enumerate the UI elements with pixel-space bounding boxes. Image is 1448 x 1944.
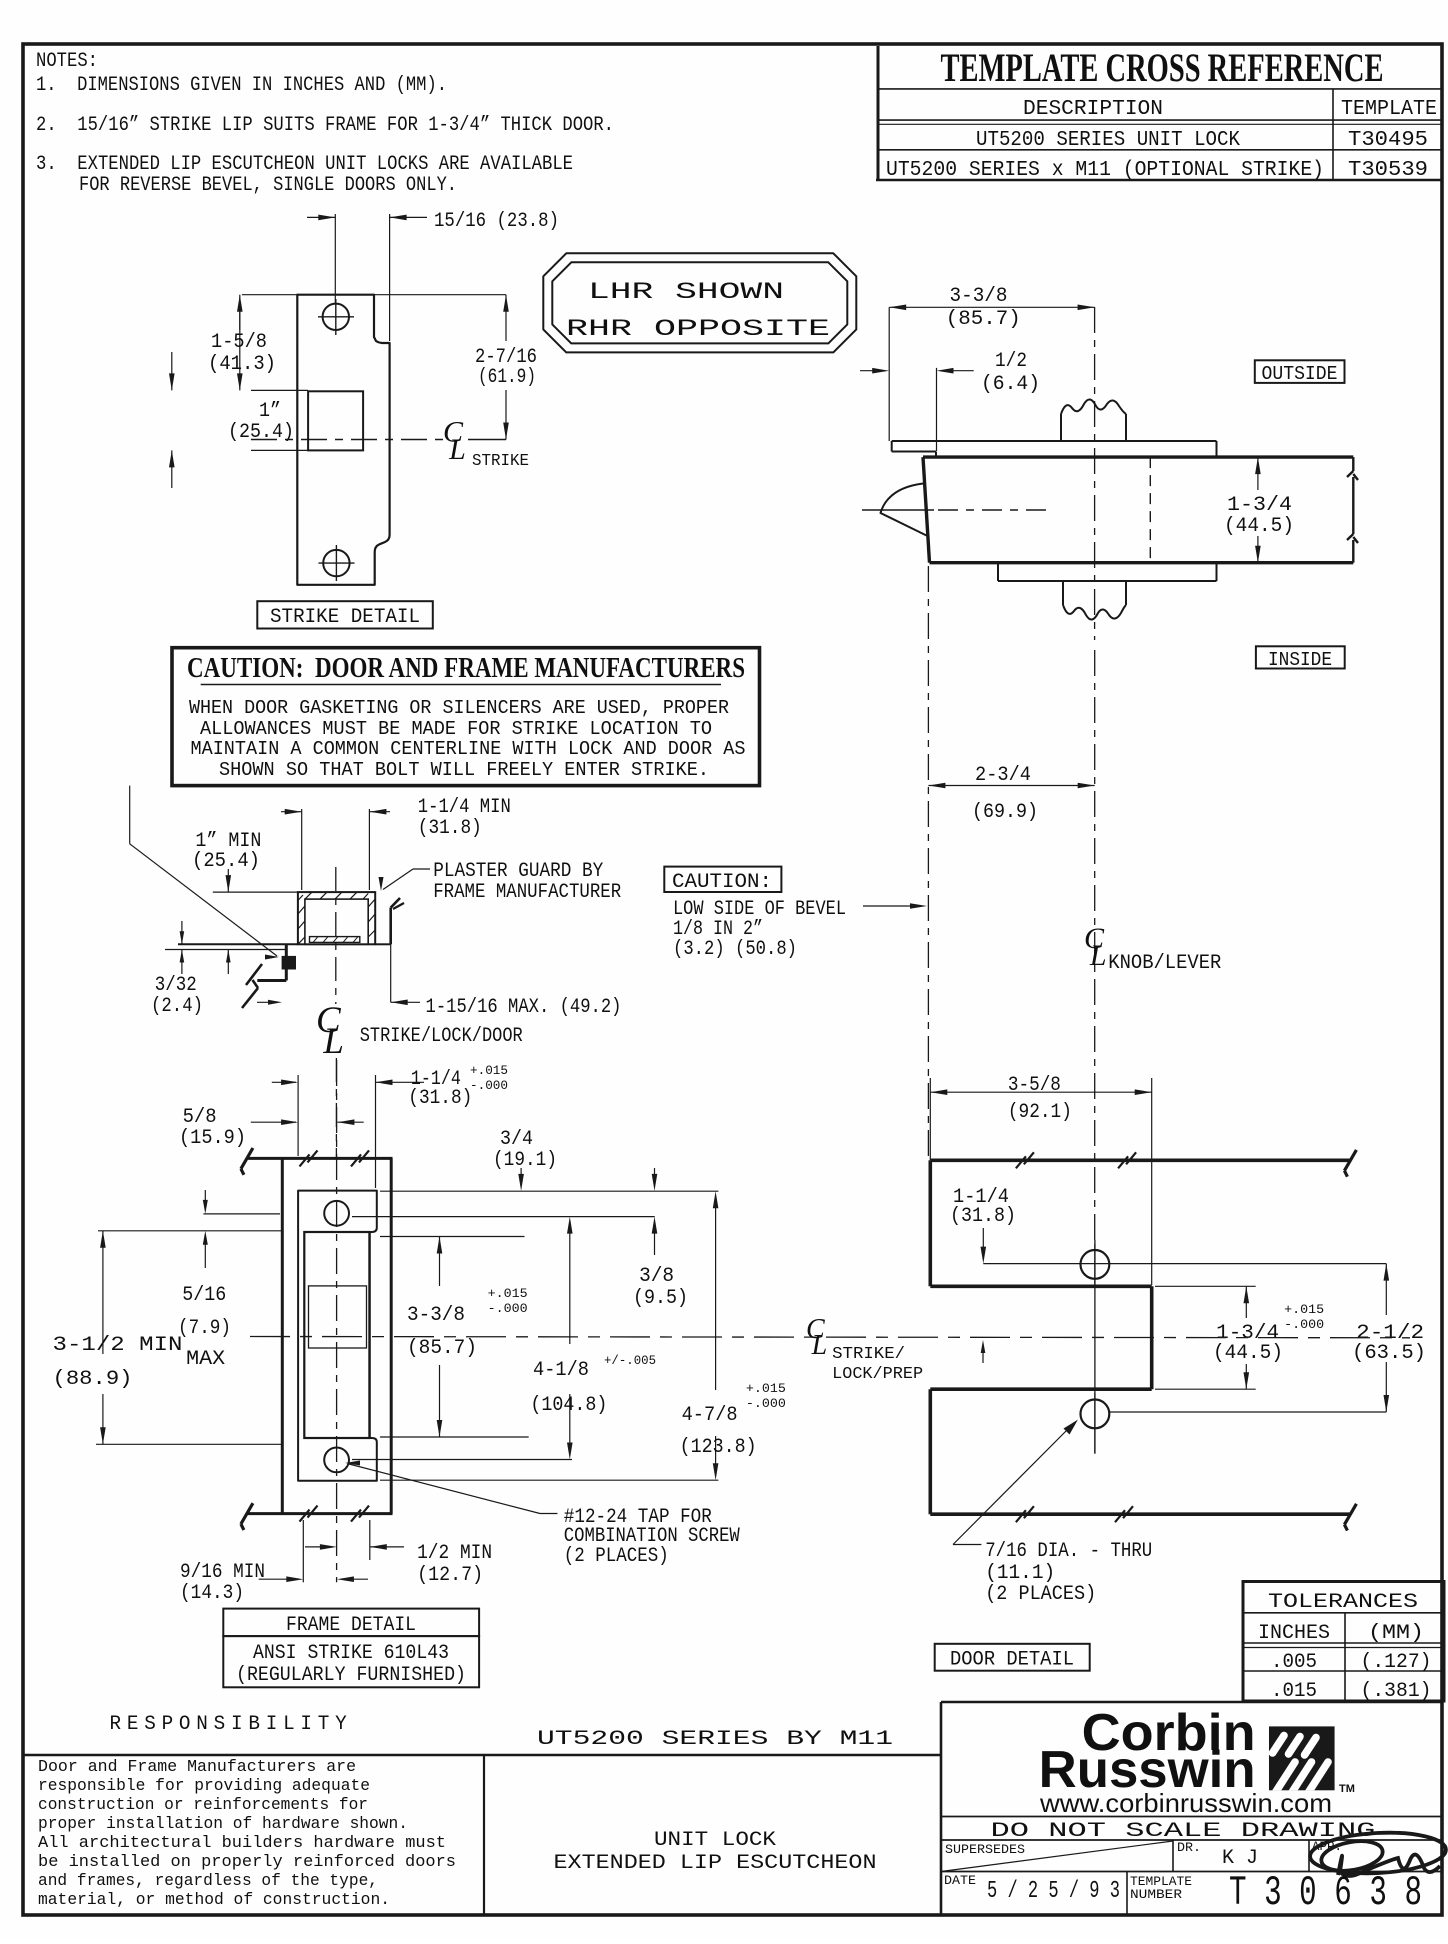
frame detail vertical centerline bbox=[336, 1060, 338, 1582]
drawn by cell bbox=[1177, 1840, 1258, 1870]
svg-text:All architectural builders har: All architectural builders hardware must bbox=[38, 1834, 446, 1853]
svg-text:CAUTION: DOOR AND FRAME MANUF: CAUTION: DOOR AND FRAME MANUFACTURERS bbox=[187, 653, 745, 684]
centerline symbol strike bbox=[443, 416, 529, 472]
dim 1/2 MIN (12.7) bbox=[305, 1520, 492, 1587]
svg-text:L: L bbox=[448, 433, 466, 466]
door edge break marks right bbox=[1347, 457, 1358, 563]
svg-text:L: L bbox=[1089, 939, 1107, 972]
dim 1-5/8 (41.3) bbox=[208, 295, 297, 391]
centerline symbol knob/lever bbox=[1084, 922, 1221, 975]
svg-text:MAX: MAX bbox=[186, 1348, 225, 1371]
door panel outline bbox=[923, 457, 1353, 563]
svg-text:3-5/8: 3-5/8 bbox=[1008, 1074, 1061, 1097]
latch pocket rect bbox=[304, 1232, 369, 1438]
svg-text:(92.1): (92.1) bbox=[1008, 1101, 1072, 1124]
svg-text:DATE: DATE bbox=[944, 1873, 976, 1888]
svg-text:STRIKE: STRIKE bbox=[472, 452, 529, 471]
svg-text:(31.8): (31.8) bbox=[950, 1205, 1016, 1228]
svg-text:(31.8): (31.8) bbox=[408, 1087, 472, 1110]
svg-text:(69.9): (69.9) bbox=[972, 801, 1038, 824]
do not scale drawing bbox=[991, 1820, 1376, 1843]
svg-text:1-15/16 MAX. (49.2): 1-15/16 MAX. (49.2) bbox=[426, 996, 622, 1019]
svg-text:(63.5): (63.5) bbox=[1352, 1342, 1426, 1365]
svg-text:(15.9): (15.9) bbox=[179, 1127, 246, 1150]
outside label box bbox=[1255, 360, 1345, 385]
svg-text:MAINTAIN A COMMON CENTERLINE W: MAINTAIN A COMMON CENTERLINE WITH LOCK A… bbox=[191, 738, 746, 760]
svg-text:TM: TM bbox=[1339, 1783, 1355, 1795]
svg-text:proper installation of hardwar: proper installation of hardware shown. bbox=[38, 1815, 408, 1834]
svg-text:NUMBER: NUMBER bbox=[1130, 1887, 1182, 1902]
svg-text:(7.9): (7.9) bbox=[178, 1317, 231, 1340]
strike lip bent over frame bbox=[391, 898, 404, 944]
svg-text:1/2 MIN: 1/2 MIN bbox=[417, 1542, 492, 1565]
svg-text:(19.1): (19.1) bbox=[493, 1149, 557, 1172]
leader from caution box to silencer bbox=[130, 786, 279, 960]
svg-text:15/16 (23.8): 15/16 (23.8) bbox=[434, 210, 559, 233]
svg-text:DR.: DR. bbox=[1177, 1840, 1201, 1855]
svg-text:3/4: 3/4 bbox=[500, 1128, 533, 1151]
svg-text:SUPERSEDES: SUPERSEDES bbox=[945, 1842, 1025, 1857]
svg-text:Door and Frame Manufacturers a: Door and Frame Manufacturers are bbox=[38, 1758, 356, 1777]
svg-text:5 / 2 5 / 9 3: 5 / 2 5 / 9 3 bbox=[987, 1878, 1120, 1905]
dim 5/8 (15.9) bbox=[179, 1106, 364, 1150]
dim 1-1/4 MIN (31.8) bbox=[281, 796, 511, 890]
svg-text:(9.5): (9.5) bbox=[633, 1287, 688, 1310]
svg-text:EXTENDED LIP ESCUTCHEON: EXTENDED LIP ESCUTCHEON bbox=[554, 1852, 877, 1875]
latch bolt bbox=[881, 484, 927, 536]
svg-text:(88.9): (88.9) bbox=[53, 1368, 133, 1391]
arrow into strike/lock cl from left bbox=[0, 0, 1, 1]
door detail label box bbox=[935, 1644, 1090, 1672]
plaster guard leader text bbox=[379, 860, 622, 904]
svg-text:1-5/8: 1-5/8 bbox=[211, 331, 267, 354]
svg-text:(11.1): (11.1) bbox=[985, 1562, 1055, 1585]
date cell bbox=[944, 1873, 1120, 1905]
svg-text:(2.4): (2.4) bbox=[151, 995, 203, 1018]
strike screw hole bottom bbox=[319, 545, 355, 581]
svg-text:(41.3): (41.3) bbox=[208, 353, 276, 376]
strike centerline bbox=[251, 439, 506, 441]
svg-text:responsible for providing adeq: responsible for providing adequate bbox=[38, 1777, 370, 1796]
svg-text:UT5200 SERIES BY M11: UT5200 SERIES BY M11 bbox=[537, 1728, 893, 1751]
svg-text:STRIKE DETAIL: STRIKE DETAIL bbox=[270, 606, 420, 629]
leader 7/16 dia thru bbox=[953, 1420, 1152, 1606]
thin gap lines 3/32 bbox=[165, 949, 286, 951]
svg-text:(85.7): (85.7) bbox=[407, 1337, 477, 1360]
svg-text:5/8: 5/8 bbox=[183, 1106, 217, 1129]
svg-text:(14.3): (14.3) bbox=[180, 1582, 244, 1605]
svg-text:-.000: -.000 bbox=[470, 1078, 508, 1093]
supersedes cell bbox=[941, 1841, 1173, 1872]
svg-text:.015: .015 bbox=[1271, 1680, 1317, 1703]
svg-text:.005: .005 bbox=[1271, 1651, 1317, 1674]
svg-text:RHR OPPOSITE: RHR OPPOSITE bbox=[566, 316, 830, 342]
svg-text:(2 PLACES): (2 PLACES) bbox=[985, 1583, 1096, 1606]
svg-text:ALLOWANCES MUST BE MADE FOR ST: ALLOWANCES MUST BE MADE FOR STRIKE LOCAT… bbox=[200, 718, 712, 740]
svg-text:3-3/8: 3-3/8 bbox=[407, 1304, 465, 1327]
svg-text:3-3/8: 3-3/8 bbox=[950, 285, 1008, 308]
frame screw hole top bbox=[324, 1201, 349, 1226]
svg-text:SHOWN SO THAT BOLT WILL FREELY: SHOWN SO THAT BOLT WILL FREELY ENTER STR… bbox=[219, 759, 709, 781]
svg-text:(44.5): (44.5) bbox=[1213, 1342, 1283, 1365]
svg-text:-.000: -.000 bbox=[488, 1301, 528, 1316]
svg-text:STRIKE/LOCK/DOOR: STRIKE/LOCK/DOOR bbox=[360, 1025, 523, 1048]
svg-text:LOCK/PREP: LOCK/PREP bbox=[832, 1365, 923, 1384]
extension lines frame top right bbox=[203, 1191, 718, 1216]
strike screw hole top bbox=[318, 299, 354, 335]
svg-text:1-3/4: 1-3/4 bbox=[1227, 494, 1292, 517]
dim 3/4 (19.1) bbox=[493, 1128, 657, 1191]
svg-text:7/16 DIA. - THRU: 7/16 DIA. - THRU bbox=[985, 1540, 1152, 1563]
dim 3-3/8 (85.7) frame bbox=[380, 1237, 529, 1438]
svg-text:PLASTER GUARD BY: PLASTER GUARD BY bbox=[433, 860, 603, 883]
title block dividers bbox=[23, 1702, 1443, 1915]
door detail screw hole bottom bbox=[1081, 1393, 1110, 1454]
svg-text:(85.7): (85.7) bbox=[946, 308, 1021, 331]
svg-text:CAUTION:: CAUTION: bbox=[672, 871, 772, 894]
svg-text:3. EXTENDED LIP ESCUTCHEON UN: 3. EXTENDED LIP ESCUTCHEON UNIT LOCKS AR… bbox=[36, 153, 573, 176]
strike/lock/door centerline dashed below door bbox=[927, 566, 929, 1158]
svg-text:DESCRIPTION: DESCRIPTION bbox=[1023, 98, 1163, 121]
centerline symbol strike/lock/prep bbox=[806, 1314, 923, 1384]
outside escutcheon plate bbox=[892, 441, 1217, 457]
svg-text:INSIDE: INSIDE bbox=[1268, 649, 1332, 671]
svg-text:(2 PLACES): (2 PLACES) bbox=[564, 1545, 669, 1568]
svg-text:2-3/4: 2-3/4 bbox=[975, 764, 1031, 787]
ut5200 series title bbox=[537, 1728, 893, 1875]
svg-text:LHR SHOWN: LHR SHOWN bbox=[588, 279, 784, 305]
approved cell signature bbox=[1309, 1829, 1447, 1876]
svg-text:FRAME DETAIL: FRAME DETAIL bbox=[286, 1614, 416, 1637]
svg-text:(104.8): (104.8) bbox=[530, 1394, 607, 1417]
dim 3/8 (9.5) bbox=[633, 1217, 688, 1310]
svg-text:UT5200 SERIES UNIT LOCK: UT5200 SERIES UNIT LOCK bbox=[976, 129, 1240, 152]
svg-text:TEMPLATE CROSS REFERENCE: TEMPLATE CROSS REFERENCE bbox=[941, 45, 1384, 90]
svg-text:9/16 MIN: 9/16 MIN bbox=[180, 1561, 265, 1584]
strike plate cross-section inside guard bbox=[310, 937, 360, 943]
svg-text:(44.5): (44.5) bbox=[1224, 515, 1294, 538]
svg-text:3/8: 3/8 bbox=[639, 1265, 674, 1288]
svg-text:FRAME MANUFACTURER: FRAME MANUFACTURER bbox=[433, 881, 621, 904]
notes text block bbox=[36, 50, 614, 197]
svg-text:(.381): (.381) bbox=[1361, 1680, 1432, 1703]
dim 1-3/4 (44.5) door thickness bbox=[1224, 457, 1294, 563]
dim 3/32 (2.4) arrows bbox=[151, 921, 231, 1018]
svg-text:ANSI STRIKE 610L43: ANSI STRIKE 610L43 bbox=[253, 1642, 449, 1665]
caution door and frame manufacturers box bbox=[172, 648, 760, 786]
dim 9/16 MIN (14.3) bbox=[180, 1520, 368, 1605]
svg-text:+.015: +.015 bbox=[1284, 1302, 1324, 1317]
svg-text:(6.4): (6.4) bbox=[981, 373, 1040, 396]
latch square thin bbox=[309, 1286, 367, 1348]
svg-text:1-1/4 MIN: 1-1/4 MIN bbox=[418, 796, 511, 819]
responsibility block bbox=[38, 1713, 456, 1910]
svg-text:(REGULARLY FURNISHED): (REGULARLY FURNISHED) bbox=[236, 1664, 466, 1687]
knob stem above with break bbox=[1061, 399, 1126, 441]
frame screw hole bottom bbox=[324, 1448, 349, 1473]
knob stem below with break bbox=[1063, 581, 1126, 620]
svg-text:FOR REVERSE BEVEL, SINGLE DOOR: FOR REVERSE BEVEL, SINGLE DOORS ONLY. bbox=[79, 174, 457, 197]
door detail break marks bbox=[1016, 1150, 1357, 1531]
dim 5/16 (7.9) MAX bbox=[98, 1190, 281, 1371]
svg-text:(.127): (.127) bbox=[1361, 1651, 1432, 1674]
svg-text:(31.8): (31.8) bbox=[418, 817, 482, 840]
knob/lever centerline vertical bbox=[1094, 307, 1096, 1454]
svg-text:4-7/8: 4-7/8 bbox=[682, 1404, 738, 1427]
corbin russwin logo bbox=[1039, 1704, 1355, 1818]
frame jamb outline bbox=[241, 1148, 393, 1530]
frame break zigzag bbox=[242, 964, 262, 1008]
template number cell bbox=[1130, 1869, 1422, 1917]
svg-text:4-1/8: 4-1/8 bbox=[533, 1359, 589, 1382]
svg-text:1/2: 1/2 bbox=[995, 350, 1027, 373]
svg-text:and frames, regardless of the: and frames, regardless of the type, bbox=[38, 1872, 378, 1891]
inside label box bbox=[1256, 646, 1345, 671]
svg-text:OUTSIDE: OUTSIDE bbox=[1262, 363, 1338, 385]
svg-text:T30539: T30539 bbox=[1348, 159, 1428, 182]
svg-text:TOLERANCES: TOLERANCES bbox=[1268, 1591, 1418, 1614]
door detail screw hole top bbox=[1081, 1244, 1110, 1285]
caution low side of bevel note bbox=[664, 867, 927, 961]
svg-text:T 3 0 6 3 8: T 3 0 6 3 8 bbox=[1229, 1869, 1422, 1917]
dim 1-1/4 (31.8) to top hole bbox=[950, 1186, 1386, 1264]
template cross reference table bbox=[876, 45, 1443, 182]
svg-text:NOTES:: NOTES: bbox=[36, 50, 98, 73]
strike plate outline bbox=[297, 295, 389, 585]
svg-text:(MM): (MM) bbox=[1368, 1622, 1424, 1645]
svg-text:KNOB/LEVER: KNOB/LEVER bbox=[1108, 952, 1221, 975]
small arrow at cl door detail bbox=[981, 1340, 986, 1363]
dim 1-1/4 +.015 (31.8) frame bbox=[272, 1063, 508, 1188]
dim 1-15/16 MAX (49.2) bbox=[391, 944, 622, 1019]
svg-text:T30495: T30495 bbox=[1348, 129, 1428, 152]
hidden line lock case in door bbox=[1149, 457, 1151, 563]
leader 12-24 tap bbox=[345, 1461, 740, 1569]
centerline symbol strike/lock/door bbox=[316, 1000, 523, 1062]
svg-text:(25.4): (25.4) bbox=[192, 850, 260, 873]
svg-text:3/32: 3/32 bbox=[155, 974, 197, 997]
hole to 2-1/2 dim line bottom bbox=[1109, 1411, 1386, 1413]
svg-text:(61.9): (61.9) bbox=[478, 366, 536, 389]
svg-text:UNIT LOCK: UNIT LOCK bbox=[654, 1829, 776, 1852]
svg-text:2. 15/16” STRIKE LIP SUITS FR: 2. 15/16” STRIKE LIP SUITS FRAME FOR 1-3… bbox=[36, 114, 614, 137]
svg-text:UT5200 SERIES x M11 (OPTIONAL: UT5200 SERIES x M11 (OPTIONAL STRIKE) bbox=[886, 159, 1324, 182]
svg-text:1. DIMENSIONS GIVEN IN INCHES: 1. DIMENSIONS GIVEN IN INCHES AND (MM). bbox=[36, 74, 447, 97]
svg-text:1”: 1” bbox=[259, 400, 281, 423]
svg-text:+/-.005: +/-.005 bbox=[604, 1353, 656, 1368]
dim 15/16 (23.8) strike lip bbox=[307, 210, 559, 341]
svg-text:be installed on properly reinf: be installed on properly reinforced door… bbox=[38, 1853, 456, 1872]
svg-text:WHEN DOOR GASKETING OR SILENCE: WHEN DOOR GASKETING OR SILENCERS ARE USE… bbox=[189, 697, 729, 719]
svg-text:www.corbinrusswin.com: www.corbinrusswin.com bbox=[1039, 1788, 1332, 1818]
inside escutcheon plate bbox=[998, 563, 1217, 581]
svg-text:(3.2) (50.8): (3.2) (50.8) bbox=[673, 938, 797, 961]
LHR shown RHR opposite label bbox=[543, 253, 856, 352]
dim 1 inch MIN (25.4) bbox=[192, 830, 298, 892]
svg-text:DOOR DETAIL: DOOR DETAIL bbox=[950, 1649, 1074, 1672]
svg-text:(12.7): (12.7) bbox=[417, 1564, 483, 1587]
tolerances table bbox=[1243, 1582, 1444, 1704]
svg-text:(25.4): (25.4) bbox=[228, 421, 294, 444]
dim 3-5/8 (92.1) bbox=[930, 1074, 1151, 1285]
plaster guard hatched box bbox=[298, 892, 375, 944]
frame detail label box bbox=[223, 1609, 479, 1688]
svg-text:-.000: -.000 bbox=[746, 1396, 786, 1411]
svg-text:TEMPLATE: TEMPLATE bbox=[1341, 98, 1437, 121]
frame stop step and silencer bbox=[257, 944, 296, 980]
svg-text:L: L bbox=[811, 1330, 828, 1361]
svg-text:material, or method of constru: material, or method of construction. bbox=[38, 1891, 390, 1910]
dim 3-1/2 MIN (88.9) bbox=[53, 1231, 282, 1445]
svg-text:L: L bbox=[322, 1021, 344, 1062]
lock horizontal centerline door view bbox=[862, 509, 1048, 511]
svg-text:K J: K J bbox=[1222, 1847, 1258, 1870]
svg-text:5/16: 5/16 bbox=[182, 1284, 226, 1307]
svg-text:construction or reinforcements: construction or reinforcements for bbox=[38, 1796, 368, 1815]
svg-text:-.000: -.000 bbox=[1284, 1317, 1324, 1332]
strike detail label box bbox=[257, 601, 433, 629]
dim 4-1/8 (104.8) bbox=[352, 1217, 656, 1460]
dim 4-7/8 (123.8) bbox=[380, 1191, 786, 1480]
strike cutout in frame bbox=[298, 1191, 377, 1481]
door detail outline bbox=[930, 1160, 1350, 1514]
lock horizontal centerline bottom bbox=[250, 1337, 1410, 1338]
svg-text:+.015: +.015 bbox=[746, 1381, 786, 1396]
centerline strike/lock/door vertical bbox=[335, 867, 338, 1160]
dim 1/2 (6.4) door view bbox=[860, 350, 1040, 451]
svg-text:+.015: +.015 bbox=[470, 1063, 508, 1078]
svg-text:RESPONSIBILITY: RESPONSIBILITY bbox=[110, 1713, 353, 1736]
svg-text:3-1/2 MIN: 3-1/2 MIN bbox=[53, 1334, 183, 1357]
frame face line bbox=[178, 943, 391, 945]
dim 1-3/4 (44.5) lock prep bbox=[1155, 1286, 1324, 1389]
strike latch opening bbox=[308, 391, 363, 450]
svg-text:INCHES: INCHES bbox=[1258, 1622, 1330, 1645]
dim 2-3/4 (69.9) bbox=[928, 764, 1094, 824]
dim 3-3/8 (85.7) door view bbox=[889, 285, 1094, 441]
dim 2-7/16 (61.9) bbox=[374, 295, 537, 440]
svg-text:(123.8): (123.8) bbox=[680, 1436, 757, 1459]
3/32 bottom dim line bbox=[257, 1000, 282, 1005]
svg-text:STRIKE/: STRIKE/ bbox=[832, 1345, 905, 1364]
svg-text:+.015: +.015 bbox=[488, 1286, 528, 1301]
dim 1 inch (25.4) latch height bbox=[169, 352, 308, 488]
dim 2-1/2 (63.5) bbox=[1352, 1264, 1426, 1412]
